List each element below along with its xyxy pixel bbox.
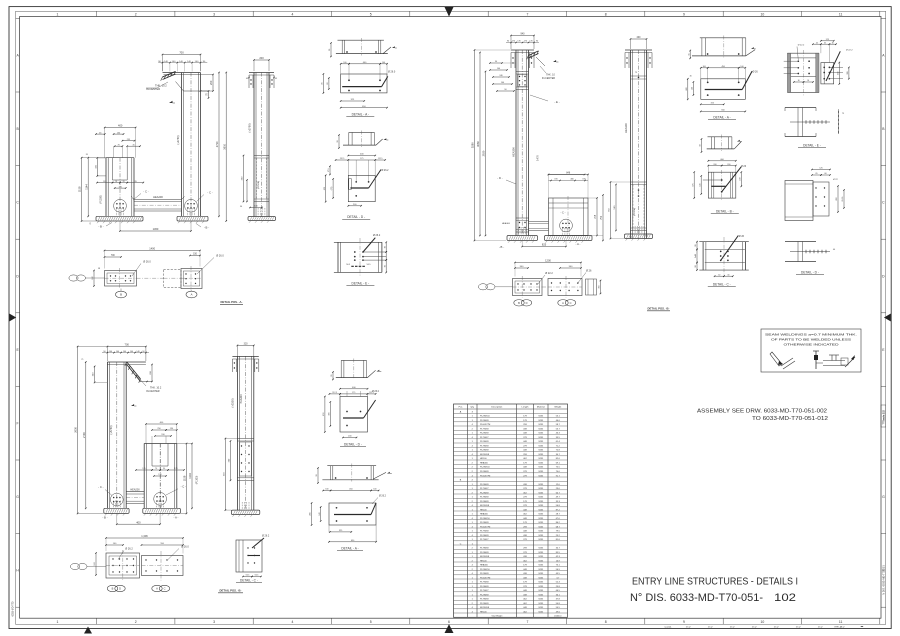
svg-text:3060: 3060 (476, 141, 480, 147)
svg-text:HR100: HR100 (480, 509, 487, 511)
TR detail B side view (700, 135, 742, 153)
svg-text:KEY80X8: KEY80X8 (480, 556, 490, 558)
TL detail A side view (329, 38, 397, 57)
TR base plate K1 (507, 236, 538, 241)
TL column K3 lower splice (254, 156, 269, 202)
svg-text:S235: S235 (538, 463, 544, 465)
svg-text:C: C (570, 301, 572, 305)
svg-text:HR100: HR100 (480, 611, 487, 613)
svg-text:ITR LU: ITR LU (835, 627, 842, 629)
left zone ticks and letters (16, 18, 20, 607)
TR detail D connection elevation (785, 168, 845, 221)
TL left vertical dims 1158 1144 (78, 154, 106, 222)
svg-text:ENTRY LINE STRUCTURES - DETA: ENTRY LINE STRUCTURES - DETAILS I (632, 577, 798, 588)
svg-text:200: 200 (259, 56, 264, 60)
svg-text:112.5: 112.5 (378, 158, 383, 160)
svg-text:PL280X8: PL280X8 (480, 433, 489, 435)
BL plan view right plate (142, 551, 184, 581)
svg-text:- E -: - E - (554, 100, 559, 104)
svg-text:IN-CENTER: IN-CENTER (542, 77, 555, 80)
TL left column K2 elevation (106, 158, 134, 217)
svg-text:100: 100 (325, 489, 328, 491)
svg-text:N° DIS. 6033-MD-T70-051-: N° DIS. 6033-MD-T70-051- (630, 592, 763, 604)
TR top dim 940 (511, 35, 534, 37)
svg-text:1 LU: 1 LU (730, 627, 735, 629)
svg-text:- C -: - C - (560, 211, 565, 215)
TR plan hole label 22.2 (538, 272, 553, 284)
svg-text:DETAIL - D -: DETAIL - D - (344, 443, 362, 447)
svg-text:- A -: - A - (576, 242, 581, 246)
svg-text:100: 100 (703, 66, 706, 68)
svg-text:1 LU: 1 LU (796, 627, 801, 629)
svg-text:30: 30 (690, 76, 692, 78)
svg-text:Total Weight: Total Weight (491, 615, 502, 618)
svg-text:8: 8 (605, 620, 607, 624)
svg-text:Ø 26.0: Ø 26.0 (388, 71, 396, 74)
svg-text:1 LU: 1 LU (708, 627, 713, 629)
TR right stub assembly (549, 196, 589, 238)
BL main column K1 elevation (107, 362, 145, 508)
svg-text:26: 26 (86, 154, 88, 156)
svg-text:65 65: 65 65 (842, 197, 844, 202)
svg-text:S235: S235 (538, 446, 544, 448)
TR detail B plan (703, 167, 742, 200)
svg-text:KEY80X8: KEY80X8 (480, 505, 490, 507)
svg-text:400: 400 (118, 124, 123, 128)
svg-text:S235: S235 (538, 505, 544, 507)
svg-text:HEA300: HEA300 (502, 222, 511, 225)
bottom zone ticks and numbers (56, 618, 879, 624)
BL bottom dim 400 (116, 513, 161, 525)
svg-text:PL780X8: PL780X8 (480, 599, 489, 601)
svg-text:100: 100 (343, 62, 346, 64)
svg-text:IN-CENTER: IN-CENTER (146, 87, 160, 91)
svg-text:175: 175 (360, 158, 363, 160)
svg-text:PL280X8: PL280X8 (480, 450, 489, 452)
TL detail A dim row (340, 62, 388, 80)
TL base plate K2 (96, 216, 143, 221)
TL detail E plan (334, 234, 387, 277)
svg-text:100: 100 (740, 66, 743, 68)
svg-text:IN-CENTER: IN-CENTER (146, 390, 160, 393)
TL plan dim 700 (105, 256, 122, 258)
TL weld note leader and text (146, 82, 168, 91)
TR detail E right plate (821, 51, 843, 84)
svg-text:S235: S235 (538, 492, 544, 494)
BL dim 340 upper left (93, 366, 108, 384)
svg-text:4: 4 (291, 13, 293, 17)
svg-text:Ø 26.2: Ø 26.2 (125, 548, 133, 551)
TL column K1 top dim 700 (163, 54, 201, 56)
TR plan dashed connector (542, 286, 548, 288)
TR anchor bolts stub (562, 228, 564, 236)
svg-text:PL280X10: PL280X10 (480, 416, 491, 418)
BL detail D bottom dim (343, 437, 357, 439)
svg-text:HEA200: HEA200 (153, 195, 163, 199)
svg-text:S235: S235 (538, 450, 544, 452)
BL detail D left dims (323, 396, 331, 433)
TR beam to stub (529, 222, 549, 231)
TR top sub dims (506, 41, 539, 44)
svg-text:S235: S235 (538, 433, 544, 435)
svg-text:30: 30 (832, 42, 834, 44)
svg-text:HEA300: HEA300 (480, 462, 489, 465)
svg-text:S235: S235 (538, 552, 544, 554)
svg-text:DETAIL POS. -B-: DETAIL POS. -B- (220, 589, 242, 593)
svg-text:1: 1 (56, 13, 58, 17)
BL detail A side view (316, 464, 392, 484)
TR detail C bottom dims (714, 274, 734, 277)
BL right column K2 elevation (144, 444, 177, 509)
svg-text:102: 102 (774, 592, 796, 604)
svg-text:- C -: - C - (181, 484, 187, 488)
svg-text:45: 45 (133, 144, 135, 146)
svg-text:1158: 1158 (183, 475, 187, 481)
TL right vertical dim 3610 (225, 73, 227, 222)
TR plan title DETAIL POS -B- (647, 307, 670, 311)
BL right vertical dims 1158 1144 P1300 (177, 443, 199, 515)
TR base plate stub (545, 236, 593, 241)
TL plan view right plate dashed part (164, 270, 182, 288)
TL bottom dim 1360 (119, 221, 192, 232)
svg-text:100: 100 (382, 62, 385, 64)
TR base plate K3 (625, 234, 653, 239)
svg-text:S235: S235 (538, 416, 544, 418)
svg-text:Tavola 102: Tavola 102 (883, 409, 885, 421)
TL K2 dim cluster above (95, 124, 141, 158)
svg-text:2630: 2630 (74, 426, 78, 432)
TL beam end weld marks (131, 197, 185, 200)
BL column K1 top weld chamfer (125, 362, 152, 383)
svg-text:Ø 26: Ø 26 (753, 71, 759, 74)
svg-text:S235: S235 (538, 488, 544, 490)
svg-text:S235: S235 (538, 599, 544, 601)
TR anchor bolts K1 (518, 227, 520, 236)
svg-text:2790: 2790 (82, 432, 86, 438)
BL bolt circle K1 (110, 493, 123, 506)
TL base plate K1 (177, 216, 208, 221)
BL label -C- left (98, 485, 112, 496)
BL detail A left dims (310, 502, 322, 526)
svg-text:PL790X8: PL790X8 (480, 582, 489, 584)
svg-text:DETAIL - D -: DETAIL - D - (347, 215, 365, 219)
svg-text:30: 30 (316, 474, 318, 476)
TR detail C left dim (695, 241, 698, 271)
svg-text:PL280X10: PL280X10 (480, 518, 491, 520)
svg-text:Ø 26.2: Ø 26.2 (373, 234, 381, 237)
svg-text:DETAIL - E -: DETAIL - E - (803, 144, 821, 148)
BL detail D plan (340, 391, 376, 432)
TL plan title DETAIL POS -A- (220, 300, 243, 304)
TL detail A bottom dims (340, 99, 388, 108)
TL base plate K3 (248, 217, 276, 221)
BL column K3 splice dims (224, 438, 238, 511)
svg-text:S235: S235 (538, 475, 544, 477)
svg-text:130: 130 (158, 474, 161, 476)
svg-text:N DIS. 6033-MD-T70-051: N DIS. 6033-MD-T70-051 (882, 565, 886, 595)
svg-text:60: 60 (824, 173, 826, 175)
BL weld flag (131, 404, 134, 406)
svg-text:PL790X7: PL790X7 (480, 488, 489, 490)
BL top dim 700 (107, 346, 145, 348)
svg-text:90: 90 (695, 265, 697, 267)
svg-text:20400.0: 20400.0 (554, 616, 562, 618)
svg-text:PL280X10: PL280X10 (480, 569, 491, 571)
BL dim 200 right of K1 top (151, 365, 153, 382)
svg-text:ASSEMBLY SEE DRW. 6033-MD-T70-: ASSEMBLY SEE DRW. 6033-MD-T70-051-002 (697, 408, 827, 414)
svg-text:4: 4 (291, 620, 293, 624)
TR middle column K3 elevation (625, 50, 652, 239)
BL plan view left plate (106, 550, 140, 581)
svg-text:1 LU: 1 LU (818, 627, 823, 629)
TL detail A plan (341, 71, 396, 93)
right band small box label (881, 405, 886, 427)
svg-text:PL60X77M: PL60X77M (480, 577, 491, 579)
svg-text:30: 30 (331, 375, 333, 377)
svg-text:Ø 26.2: Ø 26.2 (262, 535, 270, 538)
svg-text:A: A (562, 301, 564, 305)
svg-text:S235: S235 (538, 582, 544, 584)
svg-text:HEA200: HEA200 (130, 488, 140, 491)
svg-text:D: D (119, 587, 121, 591)
svg-text:HEA300: HEA300 (240, 394, 243, 404)
svg-text:Material: Material (537, 406, 545, 409)
svg-text:PL280X8: PL280X8 (480, 420, 489, 422)
svg-text:scarab.: scarab. (664, 626, 672, 629)
TR plan right side section (586, 279, 602, 295)
BL detail A dims row (322, 489, 386, 504)
BL mid dim cluster above K2 (145, 422, 177, 443)
TR detail D I-beam section (785, 242, 836, 262)
BL anchor bolts K3 (241, 502, 243, 510)
svg-text:30: 30 (337, 140, 339, 142)
svg-text:HEA300: HEA300 (480, 513, 489, 516)
svg-text:Ø 22: Ø 22 (833, 179, 839, 181)
svg-text:PL60X77M: PL60X77M (480, 526, 491, 528)
BL detail D side view (331, 359, 381, 381)
BL plan hole label left (118, 548, 133, 560)
svg-text:10: 10 (761, 620, 765, 624)
svg-text:DETAIL - A -: DETAIL - A - (341, 547, 358, 551)
svg-text:PL790X7: PL790X7 (480, 590, 489, 592)
svg-text:5: 5 (370, 13, 372, 17)
BR weld box symbol left (770, 352, 795, 369)
svg-text:20: 20 (123, 181, 125, 183)
svg-text:(P250B): (P250B) (634, 208, 636, 216)
svg-text:70: 70 (155, 468, 157, 470)
TL label -B- left base (98, 223, 112, 229)
svg-text:S235: S235 (538, 535, 544, 537)
TL bolt circle K1 (185, 199, 198, 212)
svg-text:3: 3 (213, 620, 215, 624)
TL column K3 top dim 200 (254, 59, 269, 61)
svg-text:Ø 26.2: Ø 26.2 (382, 170, 390, 172)
svg-text:11: 11 (839, 13, 843, 17)
fold mark left middle (9, 314, 16, 322)
svg-text:112.5: 112.5 (332, 392, 337, 394)
TL detail D dims above (335, 154, 386, 181)
svg-text:(76): (76) (331, 186, 333, 190)
svg-text:6033-MD-T70: 6033-MD-T70 (11, 601, 14, 616)
svg-text:1360: 1360 (153, 227, 159, 231)
svg-text:S235: S235 (538, 590, 544, 592)
TR stub bolt circle (560, 219, 573, 232)
svg-text:65: 65 (824, 42, 826, 44)
svg-text:Description: Description (491, 406, 503, 409)
svg-text:S235: S235 (538, 497, 544, 499)
svg-text:S235: S235 (538, 509, 544, 511)
svg-text:S235: S235 (538, 458, 544, 460)
fold mark right middle (884, 314, 891, 322)
svg-text:30: 30 (700, 144, 702, 146)
TR column K1 lower splice (502, 218, 529, 232)
BR weld box symbol right (813, 351, 855, 369)
BL beam HEA200 (126, 488, 144, 503)
TR detail A bottom dims (700, 103, 746, 113)
svg-text:2: 2 (135, 620, 137, 624)
TR weld flag (553, 60, 556, 62)
svg-text:Ø 26.0: Ø 26.0 (216, 255, 224, 258)
TL anchor bolts K3 (257, 208, 259, 217)
TR upper splice left dims (489, 61, 516, 92)
svg-text:SEAM WELDINGS a=0.7 MINIMUM TH: SEAM WELDINGS a=0.7 MINIMUM THK. (765, 333, 858, 337)
BL plan title DETAIL POS -B- (218, 589, 243, 593)
TR anchor bolts K3 (634, 226, 636, 234)
TL K2 inner stub plates (113, 158, 128, 180)
svg-text:30: 30 (807, 80, 809, 82)
svg-text:S235: S235 (538, 514, 544, 516)
svg-text:PL280X8: PL280X8 (480, 552, 489, 554)
svg-text:DETAIL - B -: DETAIL - B - (716, 210, 734, 214)
svg-text:(P250B): (P250B) (258, 181, 260, 189)
svg-text:A: A (156, 587, 158, 591)
svg-text:DETAIL - C -: DETAIL - C - (713, 282, 731, 286)
svg-text:S235: S235 (538, 531, 544, 533)
svg-text:57.5: 57.5 (328, 168, 330, 172)
BR title line 2 drawing number (630, 592, 796, 604)
TR plan left marker ellipses (478, 284, 512, 290)
svg-text:S235: S235 (538, 429, 544, 431)
svg-text:- A -: - A - (174, 516, 179, 520)
svg-text:PL280X8: PL280X8 (480, 501, 489, 503)
TR plan hole label 26 (577, 270, 592, 285)
BL anchor bolts K2 (156, 501, 158, 509)
svg-text:Ø 26: Ø 26 (741, 166, 747, 168)
svg-text:S235: S235 (538, 611, 544, 613)
TL detail A left dims (322, 73, 330, 94)
TR plan dim 1200 (514, 259, 582, 277)
TR column K1 upper splice (516, 72, 529, 90)
TL label -A- right base (196, 224, 209, 230)
TR stub top dim 846 (548, 173, 589, 198)
svg-text:S235: S235 (538, 522, 544, 524)
svg-text:8: 8 (605, 13, 607, 17)
TL detail D side view (337, 131, 388, 149)
svg-text:Ø 26.0: Ø 26.0 (143, 261, 151, 264)
svg-text:56.5: 56.5 (246, 575, 250, 577)
svg-text:S235: S235 (538, 501, 544, 503)
TL plan connecting dashed centerline (137, 277, 164, 279)
BL base plate K2 (143, 508, 181, 513)
TL anchor bolts K1 (187, 208, 189, 216)
svg-text:7: 7 (526, 620, 528, 624)
svg-text:Ø 26: Ø 26 (586, 270, 592, 273)
svg-text:S235: S235 (538, 424, 544, 426)
TR main column K1 elevation (511, 50, 534, 236)
svg-text:HR100: HR100 (480, 560, 487, 562)
svg-text:Ø 22.2: Ø 22.2 (846, 49, 853, 51)
svg-text:PL790X8: PL790X8 (480, 429, 489, 431)
TL K2 inner dims 115 20 20 115 (96, 181, 144, 189)
svg-text:DETAIL - A -: DETAIL - A - (713, 116, 730, 120)
svg-text:1 LU: 1 LU (752, 627, 757, 629)
svg-text:PL280X8: PL280X8 (480, 594, 489, 596)
BL plan dim 1306 (105, 534, 184, 553)
TR column K1 top weld chamfer (527, 51, 545, 66)
svg-text:B: B (120, 293, 122, 297)
BL detail A bottom dims (328, 525, 377, 543)
TL beam HEA200 (134, 195, 182, 211)
BL base plate K1 (104, 508, 129, 513)
svg-text:940: 940 (521, 33, 526, 36)
svg-text:30: 30 (329, 49, 331, 51)
TL detail D bottom dim (348, 205, 361, 207)
TR column K3 top splice ticks (631, 72, 647, 79)
svg-text:C: C (164, 587, 166, 591)
svg-text:90: 90 (384, 265, 386, 267)
svg-text:S235: S235 (538, 569, 544, 571)
svg-text:30: 30 (718, 274, 720, 276)
svg-text:Length: Length (522, 406, 529, 409)
svg-text:Ø 22.2: Ø 22.2 (545, 272, 553, 275)
svg-text:- B -: - B - (102, 516, 107, 520)
svg-text:Ø 22.2: Ø 22.2 (798, 45, 805, 47)
TL column K3 side tick dims (246, 77, 278, 80)
TL column K1 top sub dims (158, 61, 207, 72)
svg-text:3x40: 3x40 (695, 254, 697, 258)
svg-text:(+5760): (+5760) (248, 123, 252, 132)
TL label -C- left (133, 189, 149, 200)
TR left vertical dims 3580 3060 (471, 49, 511, 241)
svg-text:175: 175 (174, 468, 177, 470)
TR detail A plan (701, 71, 759, 100)
svg-text:PL780X8: PL780X8 (480, 548, 489, 550)
svg-text:S235: S235 (538, 607, 544, 609)
BL detail D dims above plan (329, 387, 380, 397)
svg-text:300: 300 (847, 72, 849, 75)
svg-text:200: 200 (727, 164, 730, 166)
svg-text:HR100: HR100 (480, 458, 487, 460)
svg-text:OTHERWISE INDICATED: OTHERWISE INDICATED (784, 343, 839, 347)
svg-text:S235: S235 (538, 441, 544, 443)
svg-text:- C -: - C - (143, 189, 149, 193)
TR bottom dim 825 (521, 241, 566, 248)
fold mark bottom center (445, 624, 454, 633)
svg-text:S235: S235 (538, 565, 544, 567)
svg-text:PL60X77M: PL60X77M (480, 424, 491, 426)
BL column K3 top dim 320 (237, 344, 253, 346)
TL main column K1 elevation (163, 73, 201, 217)
TL plan pos circle A (186, 291, 197, 298)
BR weld note box (761, 329, 861, 372)
svg-text:G: G (16, 495, 19, 499)
BR assembly note text (697, 408, 828, 422)
BL label -C- right (166, 484, 186, 495)
TL weld flag symbol (169, 101, 173, 103)
TL dim 200 right of column top (212, 75, 214, 92)
svg-text:S235: S235 (538, 556, 544, 558)
svg-text:B: B (112, 587, 114, 591)
